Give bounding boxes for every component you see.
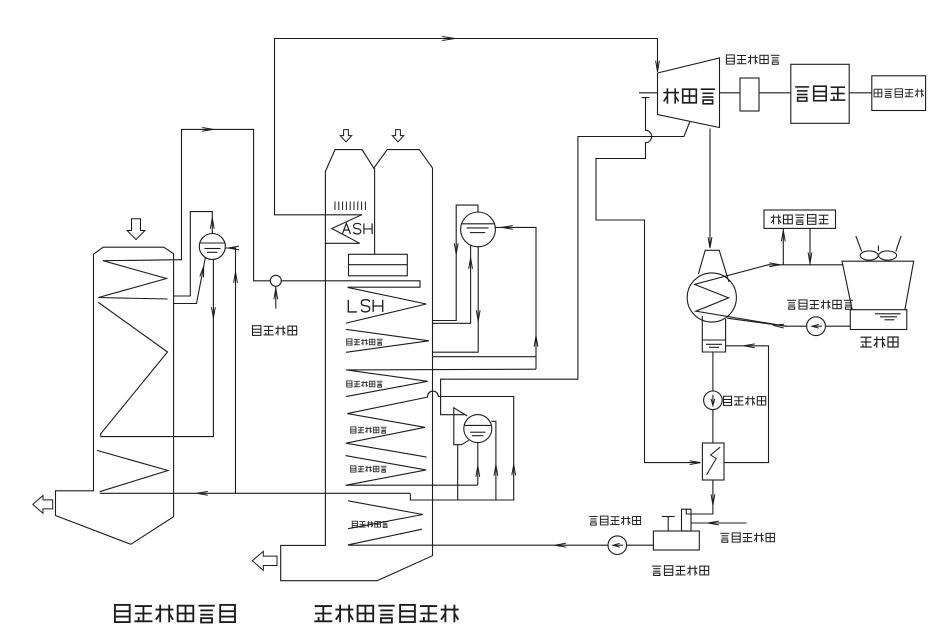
gas outlet block arrow — [33, 496, 53, 514]
LSH superheater zigzag — [347, 288, 427, 323]
wire LP header bottom — [410, 494, 513, 500]
wire shaft clutch-sinter — [759, 92, 791, 94]
wire spray water injection — [275, 286, 277, 308]
wire LP drum bottom riser — [477, 443, 479, 485]
wire hotwell makeup — [724, 346, 769, 463]
gland steam heater — [702, 443, 724, 480]
wire heater drain to deaerator — [686, 480, 713, 514]
wire from aux box — [809, 228, 811, 264]
wire LP steam hop line — [428, 391, 514, 396]
wire feed pump to boiler economizer — [348, 544, 608, 546]
wire riser to drum 1 — [174, 259, 206, 304]
wire gland steam line to gland heater — [596, 98, 700, 463]
ring cooler waste heat boiler 环冷机余热锅炉 outline — [281, 150, 433, 581]
wire HP drum bottom riser left — [433, 245, 471, 323]
turbine U1 汽轮机 — [658, 58, 720, 128]
boiler 1 steam drum — [199, 234, 225, 260]
clutch 变速离合器 — [740, 78, 759, 111]
wire feed water to boiler 1 economizer — [100, 492, 411, 494]
wire to aux box — [782, 228, 784, 264]
HP economizer zigzag — [347, 370, 428, 397]
pipe main steam (boiler ASH outlet to turbine) — [275, 39, 658, 215]
gas inlet block arrow — [127, 219, 145, 240]
label 烧结余热锅炉 — [115, 605, 235, 623]
wire turbine exhaust to condenser — [709, 129, 711, 248]
label 喷水减温 — [253, 326, 297, 336]
wire shaft sinter-motor — [849, 92, 872, 94]
hatch marks — [335, 202, 365, 211]
wire LP evaporator bottom header — [346, 484, 478, 486]
turbine shaft + gland seal — [639, 93, 658, 98]
label 循环冷却水泵 — [787, 300, 853, 310]
label 变速离合器 — [726, 55, 779, 65]
auxiliary equipment box 供辅助设备 — [764, 210, 836, 228]
first stage economizer bottom stroke — [348, 529, 421, 545]
label 高温省煤器 — [347, 381, 383, 387]
wire superheated steam to attemperator — [182, 129, 254, 280]
vacuum deaerator 真空除氧器 — [653, 531, 699, 550]
HP evaporator zigzag — [347, 329, 429, 352]
wire LP drum right riser — [492, 421, 496, 500]
wire economizer outlet header — [347, 368, 536, 371]
condenser — [687, 250, 736, 352]
label 高温蒸发器 — [347, 339, 383, 345]
deaerator vent — [662, 517, 675, 532]
boiler 2 gas inlet block arrow right — [392, 130, 403, 142]
wire downcomer from drum 1 — [101, 259, 213, 436]
wire attemperator outlet / drum plate — [281, 281, 420, 287]
LP circulation drum — [464, 415, 492, 443]
sinter waste heat boiler 烧结余热锅炉 outline — [56, 247, 174, 544]
label 真空除氧器 — [652, 566, 709, 576]
label 环冷机余热锅炉 — [314, 605, 458, 623]
wire drum 1 saturated steam to superheater — [174, 212, 213, 296]
LP evaporator zigzag — [346, 456, 426, 486]
ASH superheater zigzag — [325, 215, 361, 244]
label 一级省煤器 — [352, 521, 388, 527]
label 锅炉给水泵 — [589, 516, 640, 525]
wire feed water riser to drum 1 — [225, 248, 235, 493]
wire condensate down — [712, 352, 714, 391]
label 凝结水泵 — [724, 396, 766, 405]
boiler 2 gas outlet block arrow — [252, 551, 277, 570]
wire boiler makeup water 锅炉补给水 — [691, 522, 747, 524]
label 低压过热器 — [351, 427, 387, 433]
first stage economizer zigzag — [349, 501, 423, 529]
wire condenser cooling out to tower — [768, 264, 843, 266]
wire LP drum roof — [454, 408, 467, 416]
circulating cooling water pump 循环冷却水泵 — [807, 317, 826, 336]
wire wall header to riser — [433, 356, 537, 358]
cooling tower 冷却塔 — [842, 237, 914, 330]
wire LP drum left feed — [454, 408, 469, 445]
boiler 2 steam drum 汽包 — [349, 254, 408, 275]
wire condensate to gland heater — [712, 410, 714, 443]
boiler 1 heating surface zigzag bottom — [98, 451, 169, 492]
label 锅炉补给水 — [720, 533, 774, 543]
wire HP economizer riser to drum — [495, 227, 536, 368]
wire shaft turbine-clutch — [720, 92, 741, 94]
boiler 1 heating surface zigzag top — [99, 260, 182, 299]
wire tower basin to pump — [825, 325, 850, 327]
label LSH — [348, 300, 382, 312]
deaerator standpipe — [682, 509, 692, 531]
spray attemperator valve 喷水减温 — [254, 275, 282, 286]
wire cooling water through condenser — [695, 265, 786, 326]
boiler 2 gas inlet block arrow left — [340, 130, 351, 142]
boiler 2 middle divider — [374, 168, 376, 254]
label 低压蒸发器 — [351, 466, 387, 472]
boiler 1 heating surface zigzag middle — [99, 303, 168, 437]
wire deaerator to feed pump — [627, 544, 654, 546]
label ASH — [342, 223, 372, 234]
synchronous motor 同步电动机 — [872, 76, 926, 111]
boiler feed water pump 锅炉给水泵 — [608, 536, 627, 555]
condensate pump 凝结水泵 — [704, 391, 723, 410]
label 冷却塔 — [860, 336, 898, 347]
HP circulation drum — [461, 212, 496, 247]
wire far riser — [513, 397, 515, 501]
wire HP drum bottom downcomer right — [433, 247, 479, 352]
wire pump to condenser — [728, 318, 807, 326]
wire extraction steam line to LP drum — [441, 123, 690, 415]
wire LP drum feed drop — [457, 445, 459, 500]
sintering machine 烧结机 — [791, 64, 849, 123]
wire HP drum top downcomer — [433, 205, 479, 320]
LP superheater zigzag — [346, 397, 428, 457]
